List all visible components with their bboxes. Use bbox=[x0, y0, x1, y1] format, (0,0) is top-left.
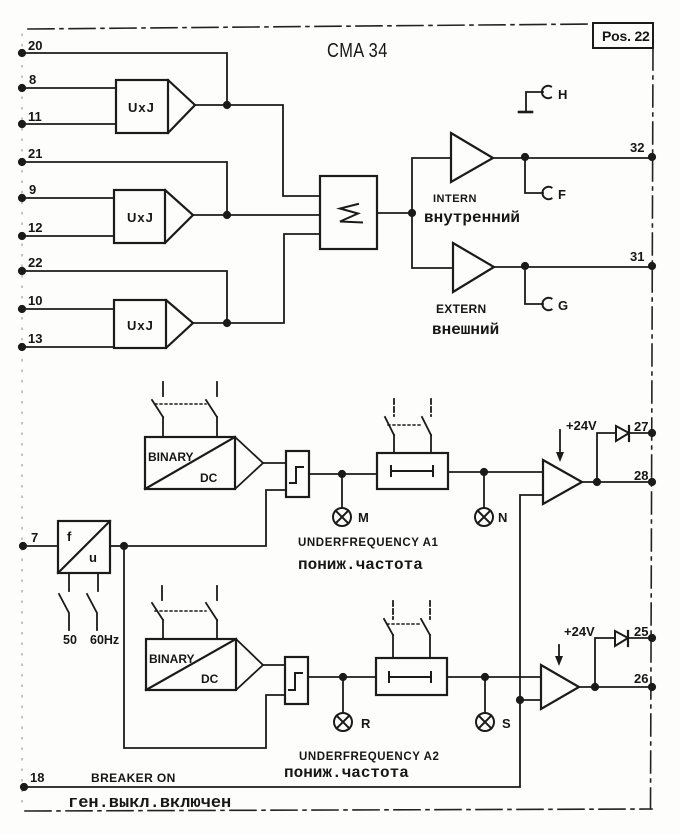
label underfrequency A1 bbox=[298, 537, 439, 574]
svg-text:25: 25 bbox=[634, 624, 648, 639]
mechanical link K3 dotted bbox=[155, 610, 206, 612]
wire node D to intern amp bbox=[412, 158, 451, 213]
node T junction bbox=[517, 697, 523, 703]
svg-text:UxJ: UxJ bbox=[127, 210, 154, 225]
wire node D to extern amp bbox=[412, 213, 453, 268]
node D junction bbox=[409, 210, 415, 216]
svg-text:9: 9 bbox=[29, 182, 36, 197]
socket F bbox=[542, 187, 566, 202]
wire terminal 9 to U2 bbox=[22, 197, 114, 199]
terminal 25 bbox=[634, 624, 655, 641]
wire U3 output to summer input 3 bbox=[193, 234, 320, 323]
binary/DC converter A1 bbox=[145, 437, 235, 489]
wire timer A2 to amp A2 bbox=[447, 676, 541, 678]
wire terminal 11 to U1 bbox=[22, 123, 116, 125]
svg-text:18: 18 bbox=[30, 770, 44, 785]
wire node F to socket G bbox=[525, 266, 543, 304]
wire node G1 to hysteresis A1 lower input bbox=[124, 490, 286, 546]
title box Pos. 22 bbox=[593, 23, 653, 48]
amplifier INTERN bbox=[424, 133, 520, 227]
svg-text:+24V: +24V bbox=[566, 418, 597, 433]
+24V supply arrow A2 bbox=[555, 624, 595, 666]
terminal 22 bbox=[19, 255, 43, 274]
svg-text:+24V: +24V bbox=[564, 624, 595, 639]
wire hysteresis A2 to timer A2 bbox=[308, 676, 376, 678]
svg-text:f: f bbox=[67, 529, 72, 544]
svg-text:N: N bbox=[498, 510, 507, 525]
node A junction bbox=[224, 102, 230, 108]
wire node Q to diode D2 bbox=[595, 638, 615, 687]
svg-text:7: 7 bbox=[31, 530, 38, 545]
multiplier U2 UxJ bbox=[114, 190, 193, 243]
wire node T to amp A2 lower input bbox=[520, 699, 541, 701]
svg-text:10: 10 bbox=[28, 293, 42, 308]
svg-text:22: 22 bbox=[28, 255, 42, 270]
node G1 junction bbox=[121, 543, 127, 549]
label breaker on bbox=[68, 771, 231, 813]
svg-text:20: 20 bbox=[28, 38, 42, 53]
switch K2a above timer A1 bbox=[385, 399, 394, 453]
+24V supply arrow A1 bbox=[556, 418, 597, 462]
node C junction bbox=[224, 320, 230, 326]
summer U4 sigma block bbox=[320, 176, 377, 249]
switch K4b above timer A2 bbox=[421, 601, 430, 658]
mechanical link K1 dotted bbox=[155, 403, 206, 405]
breaker on net wire bbox=[24, 495, 543, 787]
node M junction bbox=[339, 471, 345, 477]
hysteresis trigger A2 bbox=[285, 657, 308, 704]
wire summer output to node D bbox=[377, 212, 412, 214]
wire amp A1 output to node P bbox=[582, 481, 652, 483]
terminal 7 bbox=[20, 530, 38, 549]
svg-text:Pos. 22: Pos. 22 bbox=[602, 28, 650, 44]
terminal 27 bbox=[634, 419, 655, 436]
terminal 31 bbox=[630, 249, 655, 269]
svg-text:S: S bbox=[502, 716, 511, 731]
svg-text:26: 26 bbox=[634, 671, 648, 686]
svg-text:M: M bbox=[358, 510, 369, 525]
node S junction bbox=[482, 674, 488, 680]
lamp R bbox=[334, 713, 371, 731]
svg-text:31: 31 bbox=[630, 249, 644, 264]
svg-text:R: R bbox=[361, 716, 371, 731]
wire terminal 10 to U3 bbox=[22, 308, 114, 310]
f/u converter U5 bbox=[58, 521, 110, 573]
node Q junction bbox=[592, 684, 598, 690]
wire U1 output to summer input 1 bbox=[195, 105, 320, 196]
svg-text:BINARY: BINARY bbox=[148, 450, 194, 464]
multiplier U3 UxJ bbox=[114, 300, 193, 348]
svg-text:F: F bbox=[558, 187, 566, 202]
diode D1 bbox=[616, 426, 652, 441]
terminal 20 bbox=[19, 38, 43, 56]
wire from terminal 21 to node B bbox=[22, 162, 227, 215]
svg-text:8: 8 bbox=[29, 72, 36, 87]
svg-text:UNDERFREQUENCY A1: UNDERFREQUENCY A1 bbox=[298, 537, 439, 549]
switch K2b above timer A1 bbox=[422, 399, 431, 453]
wire terminal 12 to U2 bbox=[22, 235, 114, 237]
svg-text:CMA 34: CMA 34 bbox=[327, 38, 388, 61]
svg-text:BINARY: BINARY bbox=[149, 652, 195, 666]
terminal 28 bbox=[634, 468, 655, 485]
svg-text:DC: DC bbox=[201, 672, 219, 686]
amplifier A1 bbox=[543, 460, 582, 504]
wire node S to lamp S bbox=[484, 677, 486, 713]
switch K1b above binary A1 bbox=[206, 382, 217, 437]
switch 60Hz select bbox=[87, 573, 119, 647]
wire from terminal 20 to node A bbox=[22, 53, 227, 105]
wire node E to socket F bbox=[525, 157, 543, 193]
wire node P to diode D1 bbox=[597, 433, 616, 482]
svg-text:G: G bbox=[558, 298, 568, 313]
svg-text:12: 12 bbox=[28, 220, 42, 235]
svg-text:UxJ: UxJ bbox=[128, 100, 155, 115]
node P junction bbox=[594, 479, 600, 485]
svg-text:UNDERFREQUENCY A2: UNDERFREQUENCY A2 bbox=[299, 751, 440, 763]
lamp N bbox=[475, 508, 507, 526]
wire hysteresis A1 to timer A1 bbox=[309, 473, 377, 475]
terminal 21 bbox=[19, 146, 43, 165]
binary/DC converter A2 bbox=[146, 639, 236, 690]
switch 50Hz select bbox=[59, 573, 77, 647]
amplifier EXTERN bbox=[432, 243, 499, 339]
terminal 26 bbox=[634, 671, 655, 690]
mechanical link K4 dotted bbox=[387, 623, 421, 625]
timer A2 bbox=[376, 658, 447, 695]
svg-text:DC: DC bbox=[200, 471, 218, 485]
wire extern amp to terminal 31 bbox=[494, 266, 652, 267]
svg-text:32: 32 bbox=[630, 140, 644, 155]
funnel binary A2 output bbox=[236, 639, 263, 690]
timer A1 bbox=[377, 453, 448, 489]
wire funnel to hysteresis A1 bbox=[263, 462, 286, 464]
svg-text:27: 27 bbox=[634, 419, 648, 434]
svg-text:60Hz: 60Hz bbox=[90, 633, 119, 647]
svg-text:28: 28 bbox=[634, 468, 648, 483]
node F junction bbox=[522, 263, 528, 269]
node R junction bbox=[340, 674, 346, 680]
terminal 18 bbox=[21, 770, 45, 790]
svg-text:INTERN: INTERN bbox=[433, 193, 477, 205]
lamp M bbox=[333, 508, 369, 526]
node E junction bbox=[522, 154, 528, 160]
svg-text:BREAKER ON: BREAKER ON bbox=[91, 771, 176, 785]
wire timer A1 to amp A1 bbox=[448, 471, 543, 473]
svg-text:ген.выкл.включен: ген.выкл.включен bbox=[68, 794, 231, 813]
wire terminal 8 to U1 bbox=[22, 87, 116, 89]
wire terminal 13 to U3 bbox=[22, 346, 114, 348]
switch K1a above binary A1 bbox=[152, 382, 163, 437]
node B junction bbox=[224, 212, 230, 218]
svg-text:EXTERN: EXTERN bbox=[436, 302, 486, 316]
amplifier A2 bbox=[541, 665, 579, 709]
svg-text:50: 50 bbox=[63, 633, 77, 647]
terminal 12 bbox=[19, 220, 43, 239]
node N junction bbox=[481, 469, 487, 475]
wire terminal 7 to f/u converter bbox=[23, 545, 58, 547]
terminal 32 bbox=[630, 140, 655, 160]
hysteresis trigger A1 bbox=[286, 451, 309, 497]
svg-text:пониж.частота: пониж.частота bbox=[298, 556, 423, 574]
wire node R to lamp R bbox=[342, 677, 344, 713]
svg-text:пониж.частота: пониж.частота bbox=[284, 764, 409, 782]
svg-text:внешний: внешний bbox=[432, 321, 499, 339]
switch K3b above binary A2 bbox=[206, 586, 217, 639]
switch K4a above timer A2 bbox=[384, 601, 393, 658]
svg-text:21: 21 bbox=[28, 146, 42, 161]
terminal 13 bbox=[19, 331, 43, 350]
svg-text:H: H bbox=[558, 87, 567, 102]
svg-text:UxJ: UxJ bbox=[127, 318, 154, 333]
terminal 11 bbox=[19, 109, 42, 127]
svg-text:13: 13 bbox=[28, 331, 42, 346]
multiplier U1 UxJ bbox=[116, 80, 195, 133]
socket G bbox=[542, 298, 568, 313]
terminal 10 bbox=[19, 293, 43, 312]
mechanical link K2 dotted bbox=[388, 424, 422, 426]
lamp S bbox=[476, 713, 511, 731]
terminal 9 bbox=[19, 182, 36, 201]
terminal 8 bbox=[19, 72, 36, 91]
title CMA 34 bbox=[327, 38, 388, 61]
svg-text:u: u bbox=[89, 550, 97, 565]
wire intern amp to terminal 32 bbox=[493, 157, 652, 159]
wire U2 output to summer input 2 bbox=[193, 214, 320, 216]
wire node G1 loop to hysteresis A2 lower input bbox=[124, 546, 285, 748]
diode D2 bbox=[615, 631, 652, 646]
wire f/u output to node G1 bbox=[110, 545, 124, 547]
funnel binary A1 output bbox=[235, 437, 263, 489]
wire funnel to hysteresis A2 bbox=[263, 664, 285, 666]
svg-text:внутренний: внутренний bbox=[424, 209, 520, 227]
svg-text:11: 11 bbox=[28, 109, 42, 124]
wire node M to lamp M bbox=[341, 474, 343, 508]
socket H with ground stub bbox=[519, 86, 567, 112]
label underfrequency A2 bbox=[284, 751, 440, 782]
wire node N to lamp N bbox=[483, 472, 485, 508]
wire from terminal 22 to node C bbox=[22, 271, 227, 323]
wire amp A2 output to node Q bbox=[579, 686, 652, 688]
switch K3a above binary A2 bbox=[152, 586, 163, 639]
